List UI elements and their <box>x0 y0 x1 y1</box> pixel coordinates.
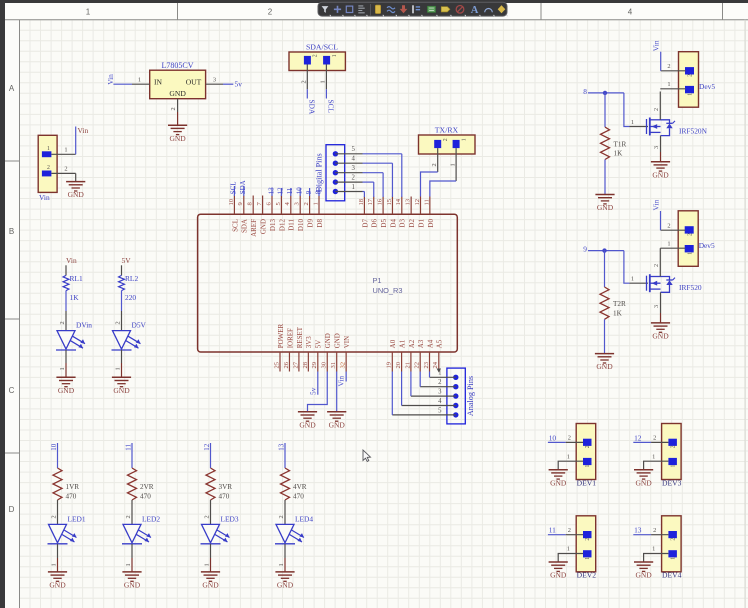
wire pin31 GND <box>336 372 338 412</box>
svg-text:OUT: OUT <box>186 77 202 86</box>
ground below LED3 <box>201 572 220 590</box>
svg-text:1K: 1K <box>70 293 80 302</box>
pin 9 SDA <box>237 196 249 234</box>
svg-text:A3: A3 <box>417 339 425 348</box>
wire net 12 <box>633 441 651 443</box>
svg-text:1: 1 <box>652 453 655 460</box>
svg-text:C: C <box>9 386 15 395</box>
pin 1 RX <box>449 148 456 181</box>
wire net 13 <box>284 443 286 468</box>
svg-text:A: A <box>471 5 479 16</box>
pin 25 POWER <box>273 323 285 371</box>
svg-text:P1: P1 <box>373 276 382 285</box>
wire net 10 <box>57 443 59 468</box>
net label 8 <box>583 87 587 96</box>
svg-text:IRF520: IRF520 <box>679 283 702 292</box>
connector SDA/SCL header <box>289 43 345 71</box>
svg-text:GND: GND <box>58 386 75 395</box>
svg-text:18: 18 <box>358 198 365 205</box>
svg-text:RESET: RESET <box>296 326 304 348</box>
svg-text:13: 13 <box>405 198 412 205</box>
svg-text:1: 1 <box>449 163 456 166</box>
junction <box>603 91 607 95</box>
resistor 3VR 470 <box>206 468 232 501</box>
pin 1 of LED4 <box>278 544 285 572</box>
svg-text:GND: GND <box>113 386 130 395</box>
ground below Q2 <box>651 323 670 341</box>
pin 4 D11 <box>284 196 296 231</box>
svg-text:2: 2 <box>670 445 676 448</box>
svg-text:IOREF: IOREF <box>286 328 294 348</box>
wire to gate <box>624 93 630 127</box>
wire 5v stub on pin 29 <box>317 372 319 395</box>
connector Dev5 upper <box>679 52 716 107</box>
svg-text:12: 12 <box>414 199 421 206</box>
pin 3 source <box>653 292 660 323</box>
pin 16 D5 <box>377 197 389 228</box>
svg-text:D4: D4 <box>389 219 397 228</box>
wire Vin to Dev5 <box>660 52 662 71</box>
svg-text:RL2: RL2 <box>125 274 138 283</box>
svg-text:4VR: 4VR <box>293 483 307 491</box>
svg-text:T1R: T1R <box>614 140 627 148</box>
net label 12 <box>203 443 211 451</box>
svg-text:GND: GND <box>635 478 652 487</box>
net label SDA on pin SDA <box>239 180 247 196</box>
net label 11 on pin D11 <box>286 187 294 196</box>
svg-text:1: 1 <box>438 370 441 377</box>
net label Vin <box>651 200 660 211</box>
pin 14 D3 <box>395 197 407 228</box>
svg-text:1K: 1K <box>614 150 624 158</box>
pin 2 SDA <box>301 65 308 90</box>
ground below Q1 <box>651 162 670 180</box>
svg-text:3: 3 <box>653 146 660 149</box>
wire pin2 down <box>75 173 77 181</box>
ground below pin 31 <box>327 412 346 430</box>
ground below LED1 <box>48 572 67 590</box>
net label 9 on pin D9 <box>305 188 313 196</box>
pin 2 drain <box>653 248 660 276</box>
power port Vin <box>78 126 89 135</box>
svg-text:2: 2 <box>301 80 308 83</box>
connector DEV4 <box>662 516 682 580</box>
svg-text:1: 1 <box>461 138 467 141</box>
svg-text:12: 12 <box>203 443 211 451</box>
wire Vin stub on pin 32 <box>345 372 347 382</box>
pin 21 A2 <box>404 339 416 371</box>
svg-text:GND: GND <box>596 362 613 371</box>
pin 26 IOREF <box>283 328 295 372</box>
svg-text:Analog Pins: Analog Pins <box>466 376 475 416</box>
svg-text:2: 2 <box>438 379 442 386</box>
wire net 11 <box>548 534 566 536</box>
svg-text:31: 31 <box>330 362 337 369</box>
svg-text:D3: D3 <box>399 219 407 228</box>
pin 1 gate <box>630 119 649 127</box>
svg-text:LED2: LED2 <box>142 514 160 523</box>
svg-text:25: 25 <box>273 361 280 368</box>
svg-text:DVin: DVin <box>76 321 92 330</box>
zone tick marks <box>5 3 723 453</box>
svg-text:SDA/SCL: SDA/SCL <box>306 43 338 52</box>
svg-text:D9: D9 <box>307 219 315 228</box>
svg-text:DEV3: DEV3 <box>662 478 682 487</box>
pin 2 of DEV3 <box>651 435 668 443</box>
svg-text:1: 1 <box>278 563 285 566</box>
wire <box>65 265 67 275</box>
svg-text:2: 2 <box>278 515 285 518</box>
svg-text:2: 2 <box>51 515 58 518</box>
pin 2 GND <box>51 165 75 173</box>
svg-text:2: 2 <box>670 538 676 541</box>
svg-text:2: 2 <box>313 54 319 57</box>
pin 2 drain <box>653 92 660 120</box>
wire Analog 3 <box>410 372 412 397</box>
ground below LED2 <box>122 572 141 590</box>
ground below T1R <box>595 195 614 213</box>
pin 5 D12 <box>275 196 287 232</box>
pin 1 Analog <box>430 370 456 378</box>
pin 2 Digital <box>335 175 362 183</box>
svg-text:GND: GND <box>260 219 268 234</box>
svg-text:DEV2: DEV2 <box>577 571 597 580</box>
pin 15 D4 <box>386 197 398 228</box>
no-connect arrow on pin 24 <box>437 369 441 373</box>
pin 2 of D5V <box>115 311 122 331</box>
svg-text:GND: GND <box>68 190 85 199</box>
svg-text:D6: D6 <box>371 219 379 228</box>
transistor Q2 IRF520 <box>647 274 702 292</box>
svg-text:1: 1 <box>567 546 570 553</box>
svg-text:2: 2 <box>64 165 67 172</box>
wire pin30 GND <box>308 372 328 412</box>
pin 18 D7 <box>358 197 370 228</box>
svg-text:GND: GND <box>169 134 186 143</box>
svg-text:GND: GND <box>277 581 294 590</box>
wire <box>121 291 123 311</box>
net label 10 <box>50 443 58 451</box>
pin 2 of DEV4 <box>651 527 668 535</box>
led D5V <box>112 321 147 350</box>
wire net 8 <box>588 92 624 94</box>
pin 5 Analog <box>392 407 456 415</box>
svg-text:3: 3 <box>213 76 216 83</box>
svg-text:10: 10 <box>296 187 304 195</box>
svg-text:470: 470 <box>219 493 230 501</box>
svg-text:Dev5: Dev5 <box>699 241 715 250</box>
floating toolbar <box>318 2 508 16</box>
svg-text:D8: D8 <box>316 219 324 228</box>
svg-text:A: A <box>9 84 15 93</box>
net label 12 on pin D12 <box>277 187 285 196</box>
svg-text:21: 21 <box>404 362 411 369</box>
pin 8 AREF <box>247 196 259 237</box>
svg-text:D1: D1 <box>417 219 425 228</box>
pin 1 IN <box>132 76 150 84</box>
svg-text:1: 1 <box>585 557 591 560</box>
wire to T1R <box>604 93 606 127</box>
pin 19 A0 <box>386 339 398 371</box>
wire Analog 1 <box>429 372 431 378</box>
svg-text:A4: A4 <box>426 339 434 348</box>
svg-text:L7805CV: L7805CV <box>162 61 194 70</box>
svg-text:10: 10 <box>549 433 557 442</box>
wire TX to D1 <box>421 172 438 197</box>
resistor 1VR 470 <box>53 468 79 501</box>
svg-text:Vin: Vin <box>66 256 77 265</box>
svg-text:10: 10 <box>50 443 58 451</box>
wire net 13 <box>633 534 651 536</box>
led LED1 <box>48 514 86 543</box>
svg-text:GND: GND <box>635 571 652 580</box>
junction <box>602 248 606 252</box>
ground below DEV4 <box>634 562 653 580</box>
svg-text:A1: A1 <box>399 339 407 348</box>
wire Analog 5 <box>391 372 393 415</box>
pin 6 D13 <box>265 196 277 232</box>
wire RX to D0 <box>430 181 456 197</box>
svg-text:A2: A2 <box>408 339 416 348</box>
svg-text:A5: A5 <box>436 339 444 348</box>
svg-text:DEV1: DEV1 <box>577 478 597 487</box>
net label SCL <box>326 100 335 114</box>
svg-text:19: 19 <box>386 361 393 368</box>
svg-text:1: 1 <box>320 80 327 83</box>
svg-text:D10: D10 <box>297 219 305 232</box>
svg-text:1: 1 <box>670 557 676 560</box>
pin 1 of DVin <box>59 350 66 377</box>
svg-text:SDA: SDA <box>241 219 249 233</box>
svg-text:3: 3 <box>653 305 660 308</box>
svg-text:1: 1 <box>652 546 655 553</box>
svg-text:AREF: AREF <box>250 219 258 237</box>
svg-text:POWER: POWER <box>277 323 285 348</box>
pin 28 3V3 <box>302 336 314 372</box>
wire T2R to gnd <box>604 319 606 353</box>
pin 22 A3 <box>414 339 426 371</box>
pin 2 of LED4 <box>278 500 285 524</box>
svg-text:20: 20 <box>395 361 402 368</box>
svg-text:GND: GND <box>550 478 567 487</box>
svg-text:1: 1 <box>332 54 338 57</box>
pin 3 source <box>653 136 660 162</box>
wire Digital 3 <box>363 173 384 197</box>
wire Vin to Dev5 <box>660 211 662 230</box>
pin 5 Digital <box>335 146 362 154</box>
pin 2 GND <box>170 99 178 126</box>
wire Analog 4 <box>401 372 403 406</box>
svg-text:1: 1 <box>585 465 591 468</box>
net label Vin <box>106 74 115 85</box>
connector DEV2 <box>576 516 596 580</box>
pin 1 of DEV4 <box>644 546 669 562</box>
svg-text:D5: D5 <box>380 219 388 228</box>
wire Analog 2 <box>419 372 421 387</box>
svg-text:2VR: 2VR <box>140 483 154 491</box>
zone labels <box>9 8 633 515</box>
svg-text:14: 14 <box>395 198 402 205</box>
svg-text:2: 2 <box>59 321 66 324</box>
wire net 12 <box>210 443 212 468</box>
svg-text:GND: GND <box>299 420 316 429</box>
wire Digital 2 <box>363 182 374 197</box>
connector TX/RX header <box>419 126 476 154</box>
power port Vin <box>66 256 77 265</box>
pin 23 A4 <box>423 339 435 371</box>
svg-text:220: 220 <box>125 293 136 302</box>
pin 2 of DEV1 <box>566 435 583 443</box>
svg-text:12: 12 <box>634 433 642 442</box>
svg-text:1: 1 <box>51 563 58 566</box>
resistor T2R 1K <box>600 287 626 319</box>
wire Vin to IN <box>113 83 132 85</box>
wire to T2R <box>604 251 606 287</box>
pin 27 RESET <box>292 326 304 371</box>
svg-text:2: 2 <box>115 321 122 324</box>
connector DEV1 <box>576 424 596 488</box>
svg-text:2: 2 <box>352 175 356 182</box>
net label 5v <box>235 80 243 89</box>
svg-text:12: 12 <box>277 187 285 195</box>
pin 2 of DVin <box>59 311 66 331</box>
svg-text:2: 2 <box>268 8 273 17</box>
net label 12 <box>634 433 642 442</box>
connector DEV3 <box>662 424 682 488</box>
pin 1 wire <box>660 241 685 249</box>
resistor RL2 220 <box>119 274 139 302</box>
svg-text:LED1: LED1 <box>68 514 86 523</box>
net label 10 on pin D10 <box>296 187 304 196</box>
pin 2 TX <box>431 148 438 172</box>
svg-text:17: 17 <box>367 198 374 205</box>
svg-text:2: 2 <box>568 527 571 534</box>
svg-text:15: 15 <box>386 198 393 205</box>
svg-text:3: 3 <box>438 389 442 396</box>
ground below D5V <box>112 377 131 395</box>
svg-text:2: 2 <box>431 163 438 166</box>
svg-text:2: 2 <box>653 108 660 111</box>
svg-text:13: 13 <box>267 187 275 195</box>
svg-text:2: 2 <box>443 138 449 141</box>
pin 3 Digital <box>335 165 362 173</box>
pin 2 D9 <box>303 196 315 228</box>
svg-text:GND: GND <box>334 333 342 348</box>
pin 24 A5 <box>432 339 444 371</box>
net label 11 <box>549 526 556 535</box>
transistor Q1 IRF520N <box>647 118 708 136</box>
pin 1 D8 <box>312 196 324 228</box>
svg-text:24: 24 <box>432 361 439 368</box>
pin 2 wire <box>661 63 686 71</box>
ground below Vin connector <box>66 182 85 200</box>
svg-text:16: 16 <box>377 198 384 205</box>
svg-text:1: 1 <box>670 465 676 468</box>
svg-text:IN: IN <box>154 77 163 86</box>
svg-text:Digital Pins: Digital Pins <box>315 153 324 192</box>
svg-text:A0: A0 <box>389 339 397 348</box>
svg-text:UNO_R3: UNO_R3 <box>373 286 403 295</box>
svg-text:Vin: Vin <box>78 126 89 135</box>
svg-text:RL1: RL1 <box>70 274 83 283</box>
ground below DEV1 <box>549 470 568 488</box>
svg-text:GND: GND <box>324 333 332 348</box>
svg-text:D11: D11 <box>288 219 296 231</box>
svg-text:32: 32 <box>340 362 347 369</box>
svg-text:2: 2 <box>303 202 310 205</box>
svg-text:2: 2 <box>687 233 693 236</box>
net label Vin <box>652 40 661 51</box>
net label 13 <box>278 443 286 451</box>
pin 1 of DEV1 <box>558 453 583 469</box>
svg-text:3: 3 <box>352 165 356 172</box>
wire net 9 <box>588 250 624 252</box>
svg-text:2: 2 <box>653 264 660 267</box>
pin 4 Analog <box>402 398 456 406</box>
net label SCL on pin SCL <box>230 181 238 196</box>
pin 1 of LED1 <box>51 544 58 572</box>
svg-text:D12: D12 <box>278 219 286 232</box>
svg-text:470: 470 <box>293 493 304 501</box>
wire T1R to gnd <box>604 160 606 195</box>
pin 13 D2 <box>405 197 417 228</box>
svg-text:TX/RX: TX/RX <box>435 126 459 135</box>
svg-text:1: 1 <box>312 202 319 205</box>
wire pin1 up <box>75 127 77 155</box>
svg-text:2: 2 <box>688 74 694 77</box>
svg-text:27: 27 <box>292 361 299 368</box>
svg-text:30: 30 <box>321 361 328 368</box>
svg-text:D5V: D5V <box>132 321 147 330</box>
wire SDA stub <box>306 89 308 98</box>
pin 32 VIN <box>340 336 352 372</box>
pin 2 Analog <box>420 379 456 387</box>
pin 20 A1 <box>395 339 407 371</box>
wire net 10 <box>548 441 566 443</box>
net label 8 on pin D8 <box>314 188 322 196</box>
pin 2 of LED1 <box>51 500 58 524</box>
led DVin <box>56 321 92 350</box>
svg-text:5: 5 <box>438 407 442 414</box>
pin 17 D6 <box>367 197 379 228</box>
svg-text:1: 1 <box>667 241 670 248</box>
svg-text:11: 11 <box>423 199 430 205</box>
pin 1 of D5V <box>115 350 122 377</box>
svg-text:1: 1 <box>86 8 91 17</box>
svg-text:1: 1 <box>64 146 67 153</box>
led LED4 <box>275 514 313 543</box>
svg-text:28: 28 <box>302 361 309 368</box>
svg-text:GND: GND <box>124 581 141 590</box>
svg-text:3VR: 3VR <box>219 483 233 491</box>
svg-text:2: 2 <box>585 538 591 541</box>
svg-text:2: 2 <box>170 107 177 110</box>
ground below DEV3 <box>634 470 653 488</box>
net label 10 <box>549 433 557 442</box>
svg-text:2: 2 <box>667 223 670 230</box>
svg-text:13: 13 <box>634 526 642 535</box>
svg-text:26: 26 <box>283 361 290 368</box>
net label 13 <box>634 526 642 535</box>
mcu P1 UNO_R3 body <box>198 214 458 352</box>
svg-text:4: 4 <box>352 156 356 163</box>
pin 1 SCL <box>320 65 327 90</box>
svg-text:Vin: Vin <box>652 40 661 51</box>
svg-text:23: 23 <box>423 361 430 368</box>
svg-text:5V: 5V <box>122 256 132 265</box>
svg-text:Vin: Vin <box>651 200 660 211</box>
connector Digital Pins <box>315 145 345 201</box>
